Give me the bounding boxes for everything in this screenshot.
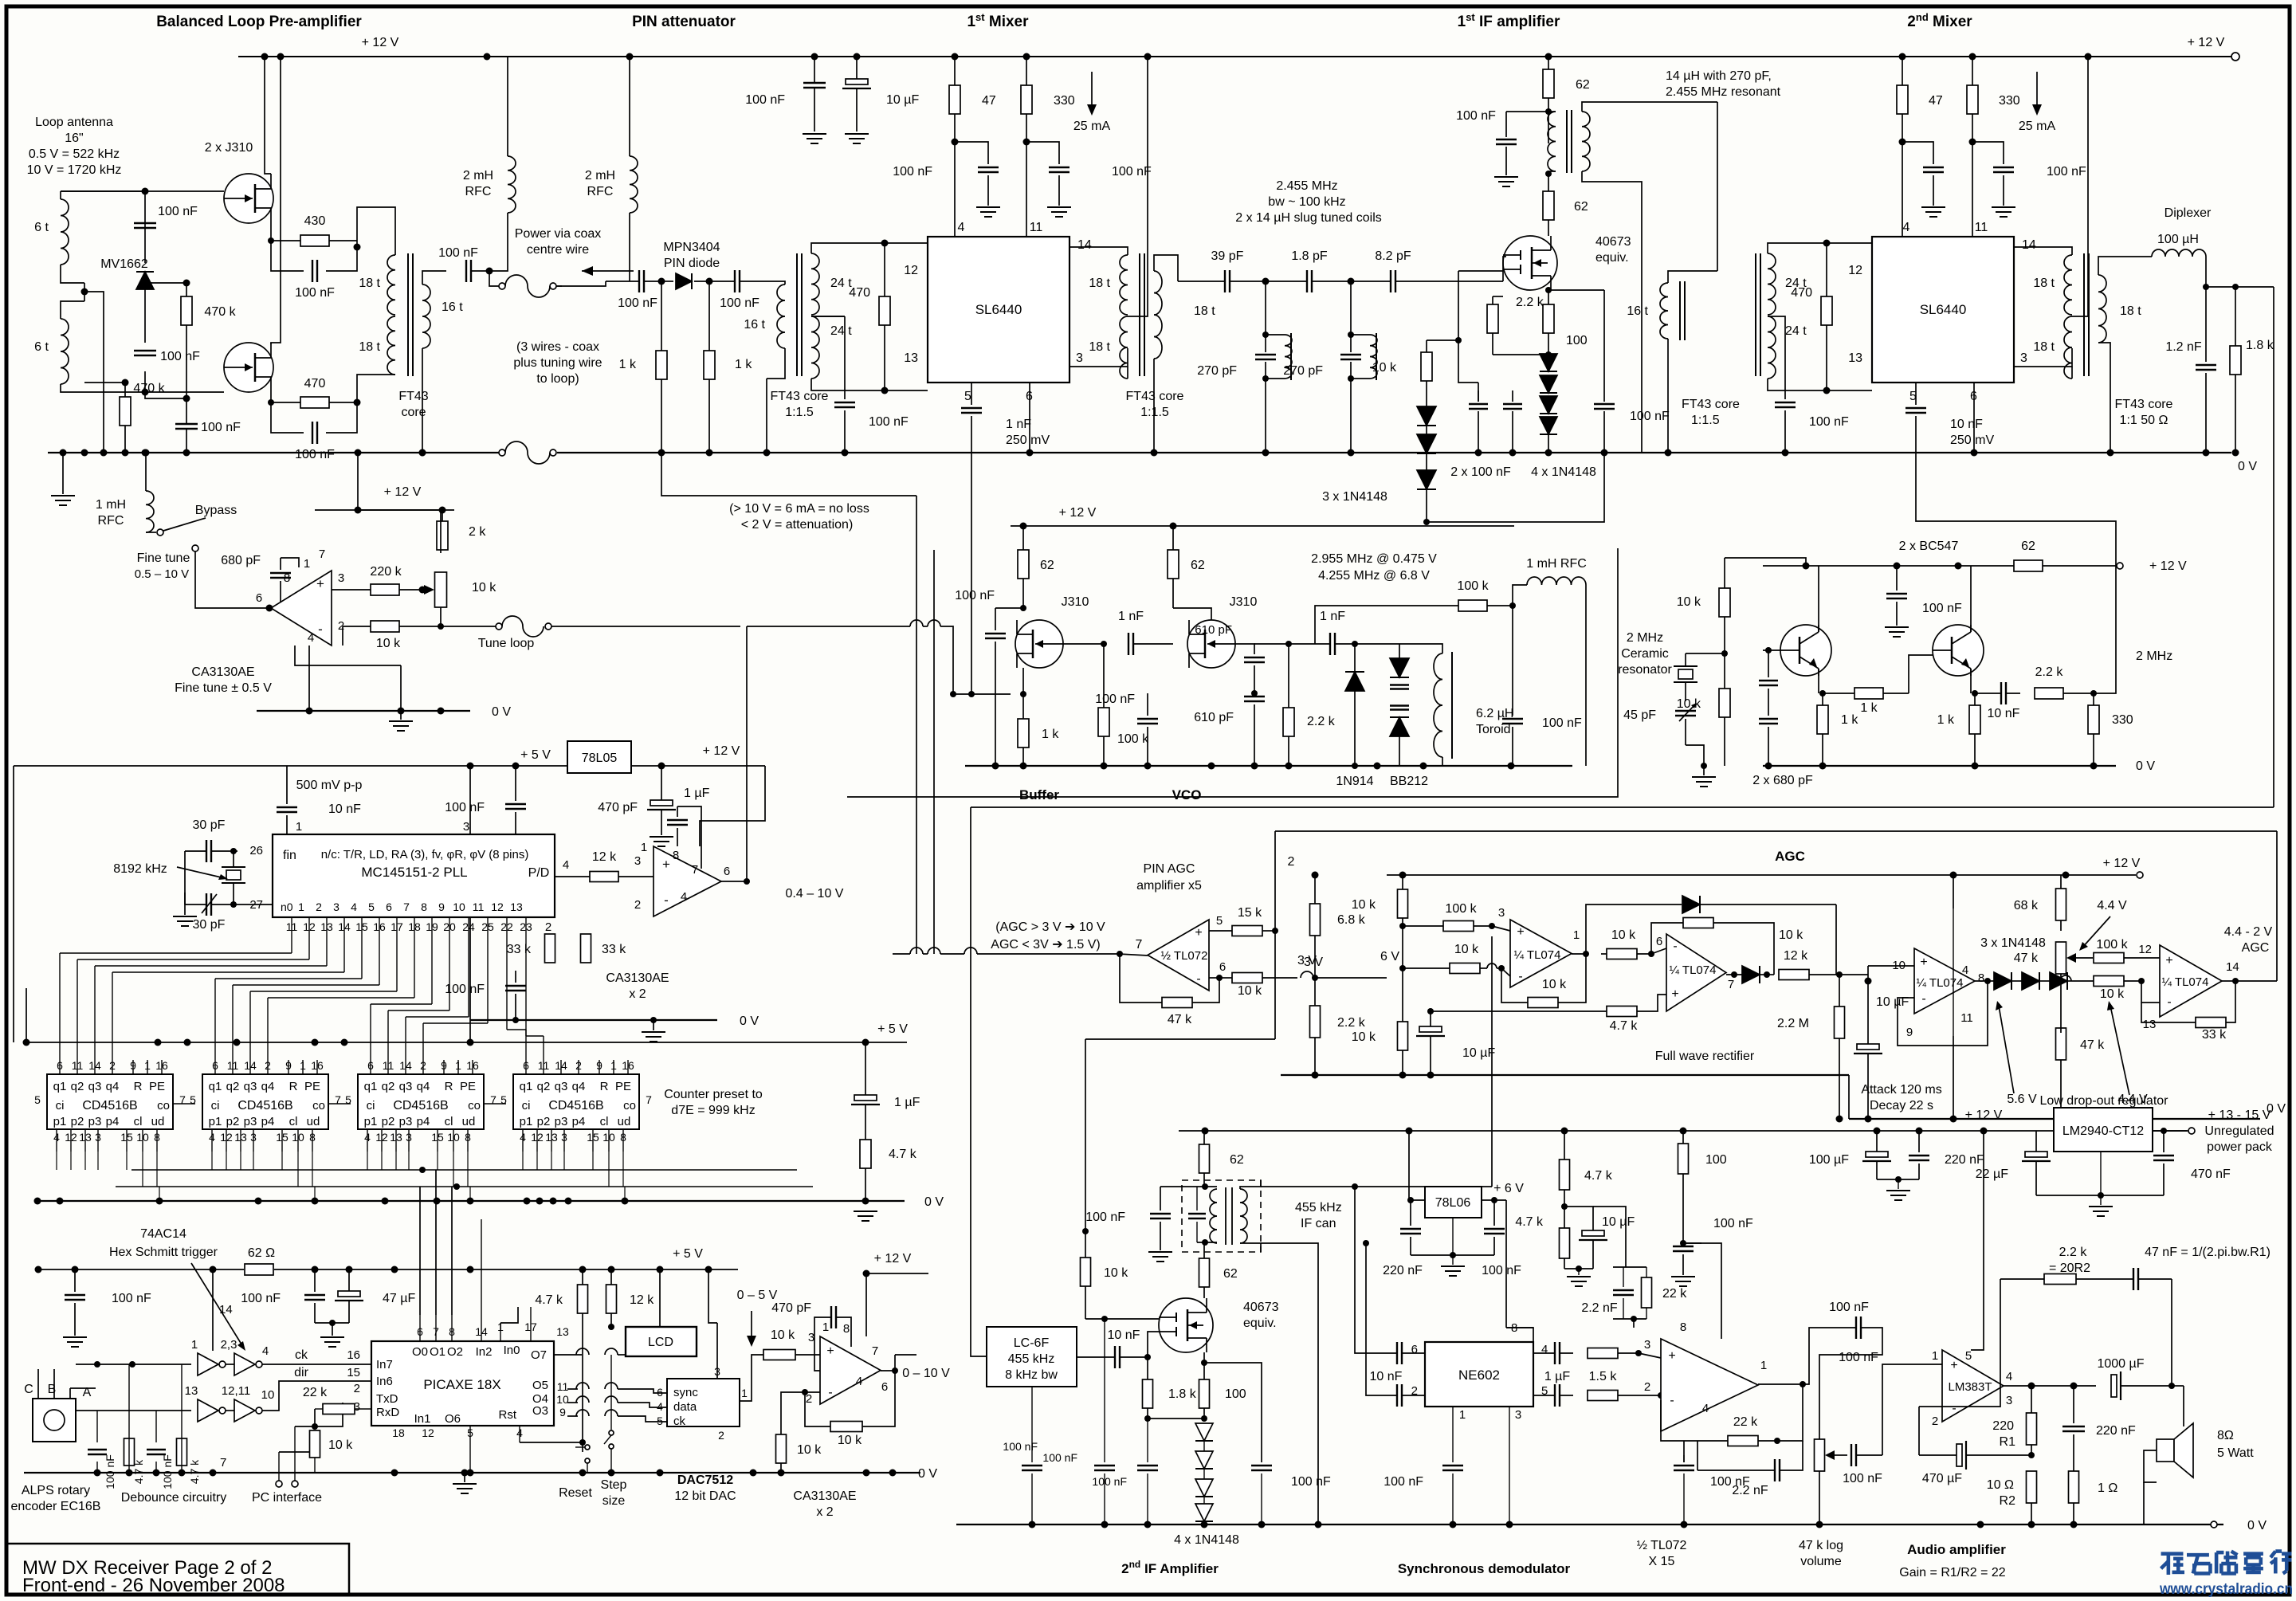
svg-text:O2: O2	[447, 1345, 463, 1359]
svg-text:X 15: X 15	[1649, 1555, 1675, 1568]
mixer output wires	[1070, 247, 1128, 255]
2mH RFC attenuator	[630, 156, 638, 213]
supply 100 resistor	[1678, 1144, 1689, 1174]
svg-text:100 nF: 100 nF	[1713, 1217, 1753, 1230]
svg-text:1: 1	[741, 1387, 748, 1399]
svg-text:100 nF: 100 nF	[438, 246, 478, 260]
cap 1nF coupling	[1128, 633, 1129, 655]
svg-text:p1: p1	[364, 1115, 378, 1128]
cap 10nF pin5 mixer2	[1905, 407, 1926, 409]
svg-text:100 k: 100 k	[2096, 938, 2128, 952]
svg-text:100 nF: 100 nF	[1112, 165, 1152, 179]
JFET drain wires to +12V	[265, 57, 271, 174]
svg-text:volume: volume	[1800, 1555, 1842, 1568]
svg-text:Front-end - 26 November 2008: Front-end - 26 November 2008	[22, 1575, 285, 1596]
svg-text:22 k: 22 k	[1662, 1287, 1687, 1301]
svg-text:14: 14	[219, 1303, 233, 1317]
svg-text:2 mH: 2 mH	[463, 169, 493, 182]
IF can out wires	[1240, 1180, 1261, 1189]
resistor 62 IF lower	[1543, 191, 1554, 220]
svg-text:10 k: 10 k	[1454, 943, 1479, 956]
resonator crystal	[1678, 669, 1693, 679]
svg-text:4.7 k: 4.7 k	[889, 1148, 917, 1161]
cap 1.8pF	[1306, 270, 1308, 292]
svg-text:68 k: 68 k	[2014, 899, 2039, 912]
resistor 330 mixer2	[1967, 85, 1978, 114]
svg-text:Reset: Reset	[559, 1486, 592, 1500]
svg-text:PE: PE	[304, 1080, 320, 1093]
opamp U6 half TL072	[1148, 920, 1209, 991]
svg-text:dir: dir	[294, 1366, 308, 1379]
resistor 62ohm inline	[245, 1264, 273, 1275]
resistor 22k rxd	[323, 1404, 355, 1415]
resistor 10k fwr in	[1450, 963, 1480, 974]
speaker	[2157, 1439, 2174, 1462]
svg-text:CD4516B: CD4516B	[393, 1099, 448, 1112]
svg-text:3: 3	[634, 854, 641, 868]
svg-text:R1: R1	[2000, 1435, 2016, 1449]
cap 100nF IF out	[1594, 403, 1615, 405]
svg-text:q2: q2	[71, 1080, 84, 1093]
resistor 62 osc	[2014, 560, 2043, 571]
svg-text:3: 3	[2020, 351, 2027, 365]
svg-text:1: 1	[298, 901, 304, 913]
svg-text:100 nF: 100 nF	[1085, 1211, 1125, 1224]
cap 10uF agc	[1857, 1044, 1879, 1050]
svg-text:Tune loop: Tune loop	[478, 637, 535, 650]
svg-text:Loop antenna: Loop antenna	[35, 116, 113, 129]
output diode	[1742, 966, 1760, 983]
svg-text:Toroid: Toroid	[1476, 723, 1511, 736]
cap 100nF pin output	[734, 270, 736, 292]
title block box	[6, 1544, 349, 1595]
svg-text:+: +	[826, 1344, 834, 1358]
svg-text:O5: O5	[532, 1379, 548, 1392]
svg-text:1 mH: 1 mH	[96, 498, 126, 512]
cap 100nF 78L05	[505, 803, 526, 805]
MOSFET 40673 2nd IF	[1159, 1298, 1213, 1352]
NE602 input caps 10nF	[1396, 1342, 1398, 1364]
svg-text:p1: p1	[209, 1115, 222, 1128]
resistor 220k	[371, 584, 399, 595]
svg-text:encoder EC16B: encoder EC16B	[11, 1500, 101, 1513]
cap 10uF rail decoupling	[846, 79, 868, 84]
svg-text:2: 2	[545, 920, 551, 934]
resistor 10k agc top	[1398, 889, 1408, 918]
svg-text:40673: 40673	[1595, 235, 1631, 249]
78L06 box	[1425, 1187, 1482, 1218]
svg-text:PICAXE 18X: PICAXE 18X	[423, 1377, 500, 1392]
svg-text:2,3: 2,3	[221, 1338, 237, 1352]
diode 1N914	[1345, 672, 1364, 691]
svg-text:10 µF: 10 µF	[1462, 1046, 1495, 1060]
buffer LO wire	[953, 693, 1011, 695]
opamp ground stub	[295, 646, 401, 665]
svg-text:14 µH with 270 pF,: 14 µH with 270 pF,	[1666, 69, 1772, 83]
feedback 22k demod	[1728, 1436, 1758, 1446]
PICAXE 18X box	[371, 1341, 554, 1426]
resistor 4.7k picaxe	[578, 1285, 588, 1313]
cap 100nF 78l06	[1484, 1228, 1505, 1230]
svg-text:6: 6	[256, 591, 262, 605]
counter bus to ground drops	[159, 1187, 160, 1201]
svg-text:470 nF: 470 nF	[2191, 1167, 2231, 1181]
svg-text:q3: q3	[244, 1080, 257, 1093]
schmitt inverter 4	[234, 1399, 255, 1422]
xtal ground	[184, 851, 186, 904]
svg-text:R: R	[600, 1080, 609, 1093]
svg-text:8.2 pF: 8.2 pF	[1375, 249, 1411, 263]
pin6 wire mixer2	[1973, 383, 1975, 453]
svg-text:Low drop-out regulator: Low drop-out regulator	[2040, 1094, 2169, 1108]
resistor 1k coupling	[1854, 688, 1883, 699]
svg-text:11: 11	[473, 901, 485, 913]
+12V sub rail	[315, 509, 454, 511]
picaxe gnd pin5	[469, 1426, 471, 1473]
wire 4.7k to mixer	[1593, 1207, 1626, 1248]
svg-text:4: 4	[563, 858, 569, 872]
resistor 12k agc out	[1779, 970, 1809, 980]
svg-text:6: 6	[1656, 935, 1662, 948]
ground symbol left	[62, 453, 64, 494]
svg-text:12 bit DAC: 12 bit DAC	[674, 1489, 736, 1503]
svg-text:1 nF: 1 nF	[1006, 418, 1031, 431]
fine tune terminal	[192, 545, 198, 551]
1mH RFC bypass choke	[146, 491, 154, 532]
svg-text:100 nF: 100 nF	[1809, 415, 1849, 429]
resistor 100 source	[1199, 1379, 1210, 1408]
+12V into opamp	[358, 509, 441, 511]
svg-text:NE602: NE602	[1458, 1368, 1500, 1383]
svg-text:1 µF: 1 µF	[684, 787, 710, 800]
svg-text:470: 470	[849, 286, 870, 300]
resistor 330 osc	[2088, 705, 2099, 734]
agc to gate1	[1085, 1039, 1086, 1231]
0V rail pll	[470, 1019, 717, 1021]
cap 10nF osc out	[2000, 682, 2002, 704]
cap 100nF mixer2 pin4	[1923, 167, 1944, 168]
resistor 33k bias	[545, 934, 555, 963]
T3 core	[1139, 253, 1140, 376]
svg-text:C: C	[24, 1383, 33, 1396]
svg-text:MPN3404: MPN3404	[663, 241, 720, 254]
resistor 62 IF2 lower	[1199, 1258, 1210, 1287]
svg-text:ci: ci	[522, 1099, 531, 1112]
svg-text:R2: R2	[2000, 1494, 2016, 1508]
svg-text:62: 62	[1574, 200, 1588, 214]
SL6440 supply wires	[954, 114, 956, 237]
source node	[1201, 1360, 1207, 1366]
svg-text:4: 4	[657, 1400, 663, 1413]
svg-text:q4: q4	[417, 1080, 430, 1093]
svg-text:100 nF: 100 nF	[720, 296, 759, 310]
svg-text:4.7 k: 4.7 k	[535, 1293, 563, 1307]
svg-text:ci: ci	[56, 1099, 65, 1112]
svg-text:SL6440: SL6440	[975, 302, 1022, 317]
feedback 10k dac	[830, 1422, 862, 1432]
svg-text:6 t: 6 t	[34, 340, 49, 354]
svg-text:8: 8	[1680, 1320, 1686, 1334]
cap 100nF mixer2 pin11	[1993, 167, 2014, 168]
svg-text:2 x 14 µH slug tuned coils: 2 x 14 µH slug tuned coils	[1235, 211, 1382, 225]
svg-text:Unregulated: Unregulated	[2204, 1124, 2274, 1138]
svg-text:11: 11	[1975, 221, 1988, 234]
LM383T output	[2004, 1385, 2096, 1387]
LCD box	[626, 1327, 697, 1356]
svg-text:100 nF: 100 nF	[1843, 1472, 1882, 1485]
svg-text:BB212: BB212	[1390, 775, 1428, 788]
svg-text:18 t: 18 t	[1089, 340, 1110, 354]
svg-text:size: size	[602, 1494, 626, 1508]
svg-text:5: 5	[964, 390, 971, 403]
wires loop to gates	[60, 191, 61, 199]
svg-text:610 pF: 610 pF	[1195, 623, 1232, 637]
cap 100nF vco rfc	[1502, 718, 1523, 720]
svg-text:cl: cl	[445, 1115, 453, 1128]
T3 primary 18t+18t	[1120, 255, 1128, 315]
counter bottom busses	[131, 1169, 797, 1171]
svg-text:18 t: 18 t	[2033, 277, 2055, 290]
mixer2 output wires	[2014, 247, 2072, 255]
svg-text:12 k: 12 k	[592, 850, 617, 864]
svg-text:1: 1	[191, 1338, 198, 1352]
2nd IF signal drop	[971, 1152, 987, 1356]
cap 1uF 78L05 out	[650, 800, 673, 806]
wire gates to JFETs	[145, 190, 224, 192]
svg-text:-: -	[1673, 940, 1677, 953]
resistor 2.2k osc out	[2035, 688, 2063, 699]
78l06 gnd	[1411, 1254, 1494, 1256]
svg-text:Attack 120 ms: Attack 120 ms	[1861, 1083, 1941, 1097]
svg-text:40673: 40673	[1243, 1301, 1279, 1314]
svg-text:8: 8	[421, 901, 427, 913]
svg-text:10: 10	[453, 901, 465, 913]
svg-text:4: 4	[1962, 963, 1968, 977]
svg-text:7: 7	[692, 863, 698, 877]
resistor 1k osc emitter2	[1969, 705, 1980, 734]
svg-text:½ TL072: ½ TL072	[1161, 949, 1208, 963]
svg-text:4: 4	[1702, 1402, 1709, 1415]
wire secondary to 2nd mixer line	[1717, 102, 1718, 271]
NE602 input wires	[1355, 1187, 1397, 1353]
cap 1.2nF diplexer	[2196, 364, 2216, 366]
svg-text:cl: cl	[289, 1115, 298, 1128]
svg-text:1 nF: 1 nF	[1118, 610, 1144, 623]
agc final out	[2222, 980, 2277, 982]
svg-text:2.2 M: 2.2 M	[1777, 1017, 1809, 1030]
svg-text:26: 26	[249, 844, 263, 857]
resistor 2k	[437, 521, 448, 550]
svg-text:= 20R2: = 20R2	[2049, 1262, 2090, 1275]
svg-text:www.crystalradio.cn: www.crystalradio.cn	[2159, 1581, 2293, 1598]
svg-text:x 2: x 2	[816, 1505, 833, 1519]
svg-text:22 k: 22 k	[1733, 1415, 1758, 1429]
svg-text:3: 3	[808, 1331, 814, 1344]
cap 100nF pll	[505, 985, 526, 987]
svg-text:-: -	[2167, 995, 2171, 1009]
T1 secondary wires	[422, 271, 446, 284]
svg-text:1: 1	[304, 557, 310, 571]
svg-text:10 k: 10 k	[771, 1328, 795, 1342]
svg-text:1 nF: 1 nF	[1320, 610, 1345, 623]
diode node to 10k	[2060, 975, 2071, 981]
T2 core	[796, 253, 798, 376]
svg-text:R: R	[289, 1080, 298, 1093]
svg-text:7: 7	[872, 1344, 878, 1358]
25mA arrow mixer2	[2036, 72, 2038, 112]
svg-text:100 nF: 100 nF	[745, 93, 785, 107]
svg-text:27: 27	[249, 898, 263, 912]
+5V counters rail	[26, 1042, 907, 1043]
feedback 10k stage2	[1683, 918, 1713, 928]
svg-text:equiv.: equiv.	[1243, 1317, 1277, 1330]
cap 100nF rail decoupling	[803, 82, 826, 84]
cap 100nF tl072 supply	[1673, 1246, 1694, 1247]
svg-text:1 k: 1 k	[1937, 713, 1955, 727]
svg-text:100 nF: 100 nF	[1829, 1301, 1869, 1314]
svg-text:In1: In1	[414, 1412, 431, 1426]
svg-text:Hex Schmitt trigger: Hex Schmitt trigger	[109, 1246, 218, 1259]
resistor 62 buffer	[1018, 550, 1029, 579]
svg-text:16 t: 16 t	[1627, 304, 1648, 318]
svg-text:1 k: 1 k	[735, 358, 752, 371]
cap 220nF zobel	[2062, 1426, 2085, 1427]
svg-text:centre wire: centre wire	[527, 243, 589, 257]
T3 centre tap to +12V	[1128, 57, 1148, 316]
svg-text:0.4 – 10 V: 0.4 – 10 V	[786, 887, 844, 901]
svg-text:11: 11	[1030, 221, 1043, 234]
svg-text:+ 12 V: + 12 V	[874, 1252, 912, 1265]
wire 15k junction down	[1274, 931, 1276, 1039]
LM383T opamp	[1942, 1350, 2004, 1422]
svg-text:7: 7	[1728, 978, 1734, 991]
svg-text:1 mH RFC: 1 mH RFC	[1526, 557, 1587, 571]
svg-text:Rst: Rst	[499, 1408, 517, 1422]
svg-text:100 nF: 100 nF	[1839, 1351, 1878, 1364]
svg-text:62: 62	[1040, 559, 1054, 572]
svg-text:100 nF: 100 nF	[295, 286, 335, 300]
svg-text:Counter preset to: Counter preset to	[664, 1088, 763, 1101]
T3 secondary 18t	[1154, 271, 1162, 359]
svg-text:p2: p2	[382, 1115, 395, 1128]
svg-text:100 nF: 100 nF	[241, 1292, 281, 1305]
T4 secondary 24t+24t	[1768, 253, 1776, 315]
svg-text:5.6 V: 5.6 V	[2007, 1093, 2037, 1106]
svg-text:18 t: 18 t	[2033, 340, 2055, 354]
svg-text:q4: q4	[106, 1080, 120, 1093]
svg-text:4: 4	[856, 1375, 862, 1388]
IF transformer primary	[1548, 112, 1556, 171]
svg-text:amplifier x5: amplifier x5	[1136, 879, 1202, 893]
svg-text:1:1 50 Ω: 1:1 50 Ω	[2120, 414, 2168, 427]
svg-text:13: 13	[510, 901, 523, 913]
cap 100nF osc	[1886, 593, 1907, 594]
cap 1nF pin5	[961, 407, 982, 409]
transformer T1 core	[407, 253, 409, 376]
svg-text:4.4 V: 4.4 V	[2097, 899, 2127, 912]
opamp out wire	[721, 881, 747, 882]
svg-text:1: 1	[641, 841, 647, 854]
svg-text:1.8 pF: 1.8 pF	[1291, 249, 1328, 263]
svg-text:7: 7	[220, 1456, 226, 1470]
cap 22uF	[2025, 1152, 2047, 1157]
svg-text:10 k: 10 k	[1677, 697, 1701, 711]
svg-text:0 – 10 V: 0 – 10 V	[902, 1367, 950, 1380]
svg-text:15: 15	[347, 1366, 360, 1379]
svg-text:2: 2	[718, 1429, 724, 1442]
svg-text:4: 4	[308, 631, 314, 645]
svg-text:RFC: RFC	[587, 185, 614, 198]
svg-text:100 nF: 100 nF	[1630, 410, 1670, 423]
svg-text:78L06: 78L06	[1435, 1196, 1471, 1210]
svg-text:10 k: 10 k	[328, 1438, 353, 1452]
picaxe top pin wires	[419, 1315, 421, 1341]
svg-text:6: 6	[386, 901, 392, 913]
svg-text:2.2 k: 2.2 k	[1337, 1016, 1366, 1030]
PC interface terminals	[276, 1481, 282, 1487]
svg-text:10 k: 10 k	[1372, 361, 1397, 375]
cap 1nF to varicap	[1329, 633, 1331, 655]
O7 to LCD wire	[554, 1354, 582, 1356]
varicap lower mirror	[1390, 717, 1409, 736]
osc resonator ground	[1692, 776, 1716, 778]
svg-text:+: +	[1517, 925, 1524, 939]
opamp U8 quarter TL074 b	[1666, 934, 1726, 1011]
svg-text:CD4516B: CD4516B	[82, 1099, 137, 1112]
svg-text:24 t: 24 t	[1785, 324, 1807, 338]
cap 100nF mixer2 tap	[1775, 402, 1796, 403]
svg-text:4.7 k: 4.7 k	[1610, 1019, 1639, 1033]
svg-text:7: 7	[319, 547, 325, 561]
svg-text:p4: p4	[106, 1115, 120, 1128]
svg-text:data: data	[673, 1400, 697, 1414]
resistor 10 R2	[2027, 1471, 2037, 1503]
AGC section ground rail	[1281, 1074, 1849, 1076]
svg-text:33 k: 33 k	[602, 943, 626, 956]
cap 100uF	[1866, 1152, 1888, 1157]
svg-text:10 Ω: 10 Ω	[1987, 1478, 2014, 1492]
svg-text:10 k: 10 k	[1352, 1030, 1376, 1044]
diodes 3x1N4148 agc	[1994, 972, 2011, 990]
svg-text:SL6440: SL6440	[1920, 302, 1967, 317]
svg-text:Ceramic: Ceramic	[1621, 647, 1669, 661]
svg-text:+ 12 V: + 12 V	[703, 744, 740, 758]
transformer T1 primary 18t+18t	[387, 255, 395, 315]
svg-text:p1: p1	[53, 1115, 67, 1128]
svg-text:PE: PE	[460, 1080, 476, 1093]
svg-text:2: 2	[1644, 1380, 1650, 1394]
svg-text:14: 14	[1077, 238, 1092, 252]
svg-text:½ TL072: ½ TL072	[1637, 1539, 1687, 1552]
resistor 47 mixer2	[1897, 85, 1908, 114]
svg-text:ALPS rotary: ALPS rotary	[22, 1484, 90, 1497]
svg-text:47 nF = 1/(2.pi.bw.R1): 47 nF = 1/(2.pi.bw.R1)	[2145, 1246, 2270, 1259]
svg-text:6: 6	[881, 1380, 888, 1394]
cap 100nF pin input	[638, 270, 640, 292]
svg-text:bw ~ 100 kHz: bw ~ 100 kHz	[1268, 195, 1345, 209]
diplexer 100uH coil	[2152, 249, 2206, 257]
svg-text:q1: q1	[209, 1080, 222, 1093]
demod bottom rail	[956, 1524, 2223, 1525]
svg-text:Full wave rectifier: Full wave rectifier	[1655, 1050, 1755, 1063]
svg-text:62: 62	[1576, 78, 1590, 92]
demod bias gnd	[1564, 1268, 1593, 1269]
svg-text:220 nF: 220 nF	[1945, 1153, 1984, 1167]
svg-text:ud: ud	[462, 1115, 476, 1128]
toroid 6.2uH	[1434, 653, 1442, 757]
svg-text:10 k: 10 k	[2100, 987, 2125, 1001]
svg-text:18 t: 18 t	[1194, 304, 1215, 318]
